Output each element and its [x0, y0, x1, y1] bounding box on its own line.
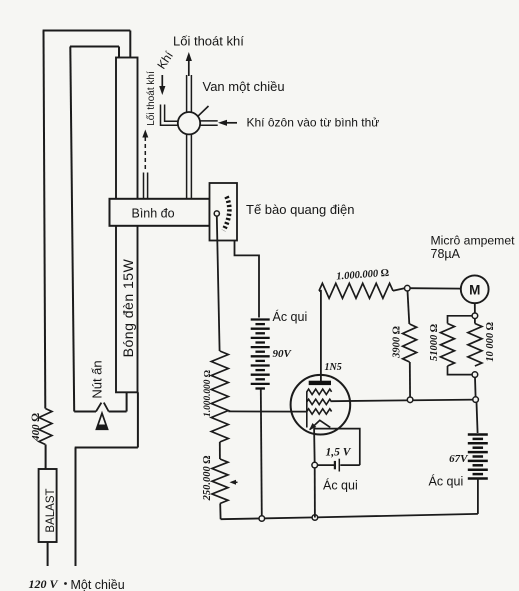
svg-text:1.000.000 Ω: 1.000.000 Ω — [203, 370, 213, 417]
label 1N5 — [325, 362, 342, 373]
push-button contact Nút ấn — [96, 403, 109, 412]
tube grid 1 zigzag — [307, 389, 332, 394]
label Van một chiều — [203, 79, 285, 94]
wire: lamp bottom-right corner drop — [137, 392, 139, 447]
label Lối thoát khí (vertical) — [145, 71, 157, 126]
label BALAST — [45, 488, 57, 532]
label Ác qui (67V) — [429, 474, 464, 489]
svg-text:1,5 V: 1,5 V — [326, 447, 352, 459]
label Bóng đèn 15W — [120, 258, 136, 357]
svg-text:Lối thoát khí: Lối thoát khí — [173, 34, 244, 49]
wire: divider bottom to rail corner — [219, 504, 221, 520]
label 90V — [273, 348, 293, 360]
wire: photocell anode down to divider — [217, 216, 220, 351]
label Bình đo — [132, 207, 175, 221]
wire: 67V battery minus to bottom rail — [477, 479, 479, 514]
lamp tube Bóng đèn 15W — [116, 58, 138, 393]
wire: 3900Ω down to rail — [409, 362, 411, 400]
junction: rail / 3900Ω — [407, 397, 413, 403]
junction: plate node — [405, 285, 411, 291]
junction dot between 120V and Một chiều — [64, 582, 67, 585]
label 1.000.000 Ω (plate) — [336, 268, 389, 283]
meter letter M — [469, 283, 480, 298]
meter M circle — [461, 275, 489, 303]
photocell cathode crescent — [224, 197, 230, 231]
label 120V — [29, 577, 59, 591]
junction: 10000Ω bottom node — [472, 372, 478, 378]
wire: push-button to lamp bottom — [126, 392, 128, 411]
label Ác qui (1.5V) — [323, 478, 358, 493]
svg-text:3900 Ω: 3900 Ω — [392, 326, 403, 359]
svg-text:Ác qui: Ác qui — [323, 478, 358, 493]
svg-text:90V: 90V — [273, 348, 293, 360]
wire: BALAST to 120V terminal — [47, 542, 49, 566]
tube grid 2 zigzag — [307, 399, 332, 404]
label Một chiều — [71, 578, 125, 591]
ozone inlet pipe right (double line) — [200, 121, 218, 125]
label Nút ấn — [90, 360, 105, 398]
wire: meter bottom lead — [474, 303, 476, 313]
label 400Ω — [30, 413, 42, 442]
resistor 250.000 Ω (divider) — [212, 459, 228, 504]
label 250.000 Ω — [202, 456, 213, 502]
wire: 51000Ω top bend — [448, 316, 473, 324]
label 1,5V — [326, 447, 352, 459]
svg-text:250.000 Ω: 250.000 Ω — [202, 456, 213, 502]
svg-text:Lối thoát khí: Lối thoát khí — [145, 71, 157, 126]
label 51000 Ω — [429, 324, 440, 361]
label 78µA — [431, 247, 461, 261]
junction: rail / 90V battery — [259, 516, 265, 522]
tube cathode arrowhead — [309, 423, 316, 430]
tube grid 3 zigzag — [307, 409, 332, 414]
wire: right rail node down to 67V battery — [477, 402, 478, 433]
wire: 90V battery minus down to bottom rail — [261, 389, 262, 519]
wire: 1MΩ right to node — [393, 288, 405, 291]
wire: drop from top horizontal to lamp top — [129, 31, 131, 58]
label Lối thoát khí (top) — [173, 34, 244, 49]
junction: cathode / 1.5V — [312, 462, 318, 468]
svg-text:Ác qui: Ác qui — [273, 309, 308, 324]
svg-text:Ác qui: Ác qui — [429, 474, 464, 489]
wire: left outer vertical (120V lead A to top) — [44, 31, 46, 409]
junction: right rail node — [473, 397, 479, 403]
wire: inner horizontal to lamp top-left — [70, 46, 119, 48]
wire: cathode node to bottom rail — [314, 468, 316, 518]
label Khí ôzôn vào từ bình thử — [247, 116, 380, 130]
label Tế bào quang điện — [246, 202, 354, 217]
photocell anode dot — [214, 211, 219, 216]
wire: cathode down to 1.5V node — [313, 429, 316, 466]
wire: drop from inner horizontal to lamp top — [118, 47, 120, 58]
svg-text:Van một chiều: Van một chiều — [203, 79, 285, 94]
svg-text:Nút ấn: Nút ấn — [90, 360, 105, 398]
tube envelope 1N5 — [291, 375, 351, 435]
resistor 10 000 Ω — [468, 324, 482, 367]
vent tube (double line) on Bình đo — [144, 173, 148, 199]
svg-text:Bình đo: Bình đo — [132, 207, 175, 221]
svg-text:Một chiều: Một chiều — [71, 578, 125, 591]
wire: node to meter — [410, 287, 461, 289]
wire: horizontal from lamp-right drop to lead B — [75, 447, 138, 449]
wire: 51000Ω bottom bend — [448, 366, 473, 375]
label Micrô ampemet — [431, 234, 516, 248]
svg-text:Micrô ampemet: Micrô ampemet — [431, 234, 516, 248]
wire: grid tap from divider to tube grid3 — [228, 410, 306, 412]
resistor 3900 Ω — [403, 324, 417, 362]
inlet pipe elbow (double line) — [161, 105, 179, 126]
wire: 1.5V battery leads — [318, 464, 360, 466]
resistor 400Ω — [39, 409, 52, 445]
tube grid left bus wire — [306, 392, 308, 428]
label Khí (slanted) — [154, 48, 176, 71]
tube cathode vee — [310, 420, 330, 429]
label 3900 Ω — [392, 326, 403, 359]
svg-text:BALAST: BALAST — [45, 488, 57, 532]
resistor 51000 Ω — [441, 324, 455, 367]
svg-text:120 V: 120 V — [29, 577, 59, 591]
junction: rail / cathode branch — [312, 515, 318, 521]
wire: divider mid segment — [219, 442, 221, 459]
battery 90V (Ác qui) — [251, 320, 270, 389]
svg-text:M: M — [469, 283, 480, 298]
wire: plate lead up to 1MΩ — [319, 291, 321, 381]
ozone in arrow (left) — [218, 120, 237, 126]
wire: top horizontal to lamp top-right — [43, 30, 131, 32]
label 10 000 Ω — [485, 322, 496, 362]
svg-text:Bóng đèn 15W: Bóng đèn 15W — [120, 258, 136, 357]
wire: 1.5V loop top — [314, 429, 360, 466]
svg-text:Khí ôzôn vào từ bình thử: Khí ôzôn vào từ bình thử — [247, 116, 380, 130]
svg-text:51000 Ω: 51000 Ω — [429, 324, 440, 361]
wire: push-button right lead — [109, 411, 127, 413]
push-button actuator symbol — [96, 413, 107, 429]
svg-text:67V: 67V — [449, 453, 469, 465]
gas in arrow (down) — [159, 75, 165, 95]
wire: bottom rail — [221, 514, 478, 519]
wire: plate node down to 3900Ω — [408, 291, 410, 324]
resistor 1.000.000 Ω (divider) — [211, 351, 228, 442]
valve pipe down to vessel (double line) — [187, 134, 192, 199]
label 67V — [449, 453, 469, 465]
wire: push-button left lead — [74, 411, 96, 413]
ballast box BALAST — [39, 469, 57, 542]
wire: bottom node down to right rail — [474, 377, 477, 397]
resistor 1.000.000 Ω (plate) — [319, 283, 393, 298]
vessel box Bình đo — [110, 199, 210, 226]
svg-text:10 000 Ω: 10 000 Ω — [485, 322, 496, 362]
svg-text:400 Ω: 400 Ω — [30, 413, 42, 442]
one-way valve circle — [178, 112, 200, 134]
battery 67V (Ác qui) — [468, 435, 488, 479]
tube plate bar — [309, 381, 331, 385]
wire: inner vertical (120V lead B to push-button) — [70, 47, 74, 412]
photocell box Tế bào quang điện — [210, 183, 238, 241]
wire: photocell cathode to 90V battery — [235, 241, 260, 318]
wire: 400Ω to BALAST — [45, 445, 47, 470]
label 1.000.000 Ω (divider) — [203, 370, 213, 417]
outlet pipe up (double line) — [187, 75, 192, 113]
svg-text:1N5: 1N5 — [325, 362, 342, 373]
battery 1.5V bars — [335, 459, 339, 472]
vent flow dashed arrow — [142, 130, 148, 171]
junction: meter bottom node — [472, 313, 478, 319]
gas out arrow (up) — [186, 52, 192, 76]
label Ác qui (90V) — [273, 309, 308, 324]
wire: 120V lead B lower segment — [75, 448, 77, 567]
wire: meter node to 10000Ω — [474, 319, 476, 324]
valve pointer line — [197, 106, 208, 117]
potentiometer wiper arrow — [230, 480, 238, 485]
svg-text:Tế bào quang điện: Tế bào quang điện — [246, 202, 354, 217]
wire: grid2 out to right rail — [332, 400, 476, 402]
svg-text:78µA: 78µA — [431, 247, 461, 261]
